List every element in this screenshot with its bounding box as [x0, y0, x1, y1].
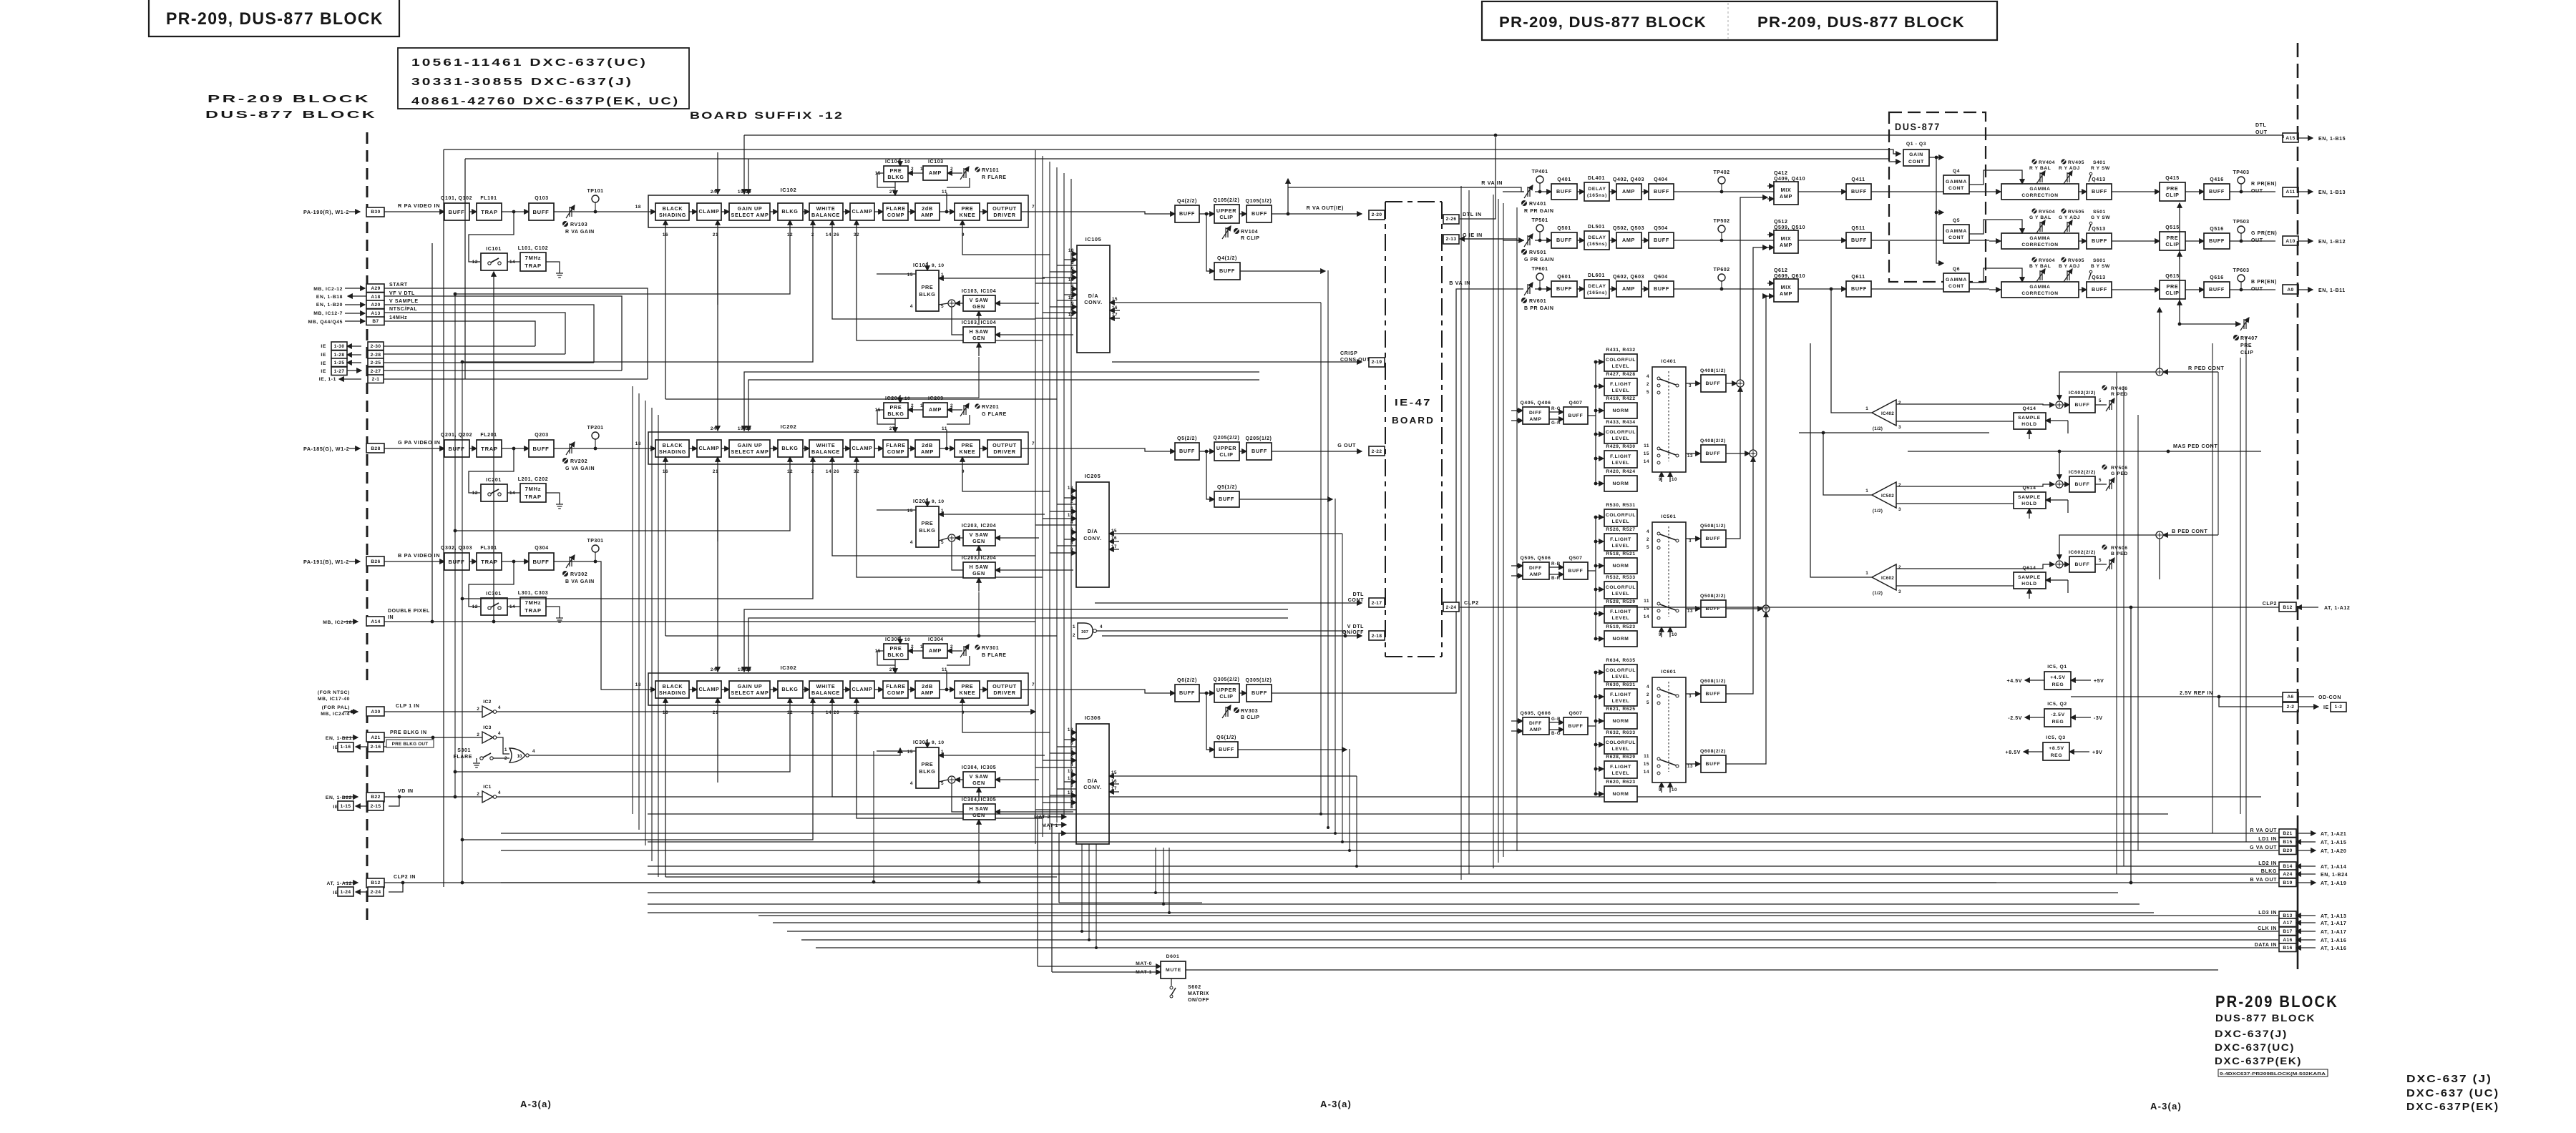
svg-text:+4.5V: +4.5V	[2050, 675, 2065, 680]
svg-text:1-15: 1-15	[341, 804, 351, 809]
svg-text:Q4: Q4	[1953, 169, 1960, 174]
svg-text:LEVEL: LEVEL	[1612, 388, 1630, 393]
svg-text:9: 9	[1071, 301, 1074, 306]
sum node IC602(2/2)	[2056, 561, 2063, 568]
wire	[384, 353, 565, 355]
D/A converter IC306	[1076, 724, 1109, 844]
svg-text:IE: IE	[321, 344, 326, 349]
wire gamma cont feed Q5	[1936, 212, 1943, 213]
wire IC402 in tap	[1831, 289, 1872, 413]
svg-text:CLP2: CLP2	[1464, 599, 1479, 606]
switch S401	[2089, 172, 2092, 182]
svg-text:AT, 1-A20: AT, 1-A20	[2321, 849, 2346, 854]
ground	[556, 273, 563, 278]
svg-text:Q408(2/2): Q408(2/2)	[1700, 438, 1726, 443]
svg-text:14: 14	[826, 710, 831, 715]
svg-text:BUFF: BUFF	[532, 209, 549, 215]
wire pin2 drop	[462, 698, 813, 840]
svg-text:Q601: Q601	[1557, 275, 1571, 280]
clamp in IC202	[697, 440, 721, 457]
regulator IC5,Q3 +8.5V	[2043, 742, 2069, 760]
op-amp IC502	[1865, 482, 1901, 514]
wire	[343, 711, 358, 712]
wire IC502 out 3	[1896, 503, 2041, 504]
svg-text:COMP: COMP	[887, 690, 904, 696]
svg-text:G PR GAIN: G PR GAIN	[1524, 257, 1554, 263]
wire Q5(1/2) out	[1239, 499, 1332, 500]
svg-text:4: 4	[1646, 529, 1649, 534]
wire trap feed IC201	[469, 448, 514, 493]
buffer Q6(1/2)	[1214, 742, 1238, 757]
wire pin8 bend	[1059, 902, 1202, 903]
wire level feed riser	[1595, 362, 1596, 484]
svg-text:MAS PED CONT: MAS PED CONT	[2173, 443, 2218, 449]
svg-text:LEVEL: LEVEL	[1612, 461, 1630, 466]
svg-text:PRE: PRE	[962, 205, 974, 212]
svg-text:DATA IN: DATA IN	[2255, 943, 2277, 948]
pot RV501	[1524, 234, 1533, 247]
level box R519, R523	[1604, 631, 1637, 647]
wire dac pin	[1043, 277, 1077, 278]
svg-text:BLKG: BLKG	[2261, 869, 2277, 874]
svg-text:BUFF: BUFF	[448, 209, 464, 215]
part number box	[2218, 1069, 2328, 1076]
svg-text:Q609, Q610: Q609, Q610	[1774, 274, 1805, 279]
vertical bus x=3092	[2212, 343, 2213, 833]
svg-text:PRE: PRE	[890, 167, 902, 174]
wire	[554, 561, 587, 562]
svg-text:COLORFUL: COLORFUL	[1606, 668, 1636, 673]
bus riser x=1615	[1155, 848, 1156, 893]
svg-text:IC301: IC301	[913, 740, 929, 745]
svg-text:B Y BAL: B Y BAL	[2029, 264, 2051, 269]
svg-text:4: 4	[498, 790, 501, 795]
svg-text:R526, R527: R526, R527	[1606, 527, 1635, 532]
svg-text:EN, 1-B22: EN, 1-B22	[326, 795, 352, 800]
svg-text:(FOR PAL): (FOR PAL)	[322, 705, 350, 710]
svg-text:AMP: AMP	[929, 406, 942, 413]
bus wire y=1138	[648, 813, 2168, 815]
svg-text:OUT: OUT	[2251, 189, 2263, 194]
svg-text:CLAMP: CLAMP	[852, 445, 872, 451]
pre knee in IC202	[955, 440, 980, 457]
svg-text:-3V: -3V	[2094, 716, 2103, 721]
connector 1-24	[338, 887, 353, 896]
svg-text:IC2: IC2	[483, 700, 491, 705]
svg-text:BUFF: BUFF	[1851, 188, 1867, 195]
upper clip Q205(2/2)	[1214, 442, 1239, 461]
wire	[345, 313, 365, 314]
svg-text:BLKG: BLKG	[781, 445, 798, 451]
svg-text:DTL: DTL	[1353, 592, 1365, 597]
connector B28	[366, 443, 384, 453]
svg-text:Q605, Q606: Q605, Q606	[1520, 711, 1551, 716]
svg-text:BUFF: BUFF	[1568, 413, 1584, 418]
svg-text:Q411: Q411	[1851, 177, 1865, 182]
svg-text:TP501: TP501	[1531, 218, 1548, 223]
wire	[384, 362, 594, 363]
svg-text:TRAP: TRAP	[481, 559, 497, 565]
svg-text:4: 4	[532, 749, 535, 754]
svg-text:B14: B14	[2283, 864, 2292, 869]
svg-text:A11: A11	[2286, 190, 2296, 195]
wire IC402 out 3	[1896, 421, 2041, 422]
wire	[349, 211, 360, 212]
svg-text:2-30: 2-30	[371, 344, 381, 349]
svg-text:R CLIP: R CLIP	[1241, 236, 1260, 241]
svg-text:MB, Q44/Q45: MB, Q44/Q45	[308, 320, 343, 325]
pre blkg IC301	[916, 747, 939, 788]
svg-text:GEN: GEN	[972, 780, 985, 786]
svg-text:OUT: OUT	[2251, 287, 2263, 292]
svg-text:CLIP: CLIP	[1219, 214, 1233, 220]
wire dac pin	[1064, 781, 1076, 783]
svg-text:G FLARE: G FLARE	[982, 412, 1007, 417]
svg-text:7: 7	[1071, 255, 1074, 260]
wire crisp cont out	[1112, 361, 1362, 363]
connector A16	[2279, 936, 2296, 944]
svg-text:4: 4	[1071, 284, 1074, 289]
buffer Q604	[1649, 281, 1674, 297]
svg-text:LD1 IN: LD1 IN	[2258, 837, 2277, 842]
wire	[384, 561, 444, 562]
svg-text:MAT 1: MAT 1	[1042, 823, 1058, 828]
svg-text:2-19: 2-19	[1372, 360, 1382, 365]
svg-text:R419, R422: R419, R422	[1606, 396, 1635, 401]
svg-text:CLAMP: CLAMP	[698, 208, 719, 215]
svg-text:TP403: TP403	[2233, 170, 2249, 175]
clamp 2 in IC202	[850, 440, 874, 457]
svg-text:G PED: G PED	[2111, 471, 2128, 476]
svg-text:Q512: Q512	[1774, 220, 1788, 225]
svg-text:8: 8	[1071, 307, 1074, 312]
wire riser 1856	[1327, 270, 1329, 828]
svg-text:H SAW: H SAW	[969, 328, 988, 335]
wire	[345, 288, 365, 289]
svg-text:2: 2	[1646, 692, 1649, 697]
switch IC101	[481, 253, 507, 270]
connector B7	[366, 317, 384, 325]
wire r ped cont	[2163, 371, 2218, 373]
vertical bus x=3100	[2218, 372, 2219, 535]
svg-text:BUFF: BUFF	[1252, 448, 1267, 454]
svg-text:R PED: R PED	[2111, 392, 2128, 397]
svg-text:BUFF: BUFF	[532, 559, 549, 565]
svg-text:DELAY: DELAY	[1588, 187, 1606, 192]
D/A converter IC205	[1076, 482, 1109, 587]
bus riser x=911	[651, 408, 653, 861]
wire	[345, 304, 365, 305]
svg-text:IN: IN	[388, 615, 394, 620]
upper clip Q105(2/2)	[1214, 205, 1239, 223]
connector 2-15	[368, 801, 384, 810]
svg-text:OUTPUT: OUTPUT	[992, 683, 1017, 690]
svg-text:R FLARE: R FLARE	[982, 175, 1007, 180]
wire dac pin	[1050, 795, 1076, 796]
wire pin2 drop	[462, 220, 813, 362]
svg-text:A13: A13	[371, 311, 380, 316]
svg-text:BLKG: BLKG	[781, 686, 798, 692]
svg-text:1: 1	[1073, 624, 1075, 629]
svg-text:9, 10: 9, 10	[932, 499, 945, 504]
buffer Q103	[529, 203, 554, 220]
wire top bus 2	[444, 149, 1901, 154]
wire 2dB out to pin 11	[946, 430, 947, 448]
vertical bus x=2053	[1468, 190, 1470, 874]
pre knee in IC102	[955, 203, 980, 220]
wire 2-2 branch	[2219, 697, 2283, 707]
vertical bus x=1467	[1049, 162, 1050, 830]
pre clip Q415	[2160, 182, 2185, 201]
sum node IC502(2/2)	[2056, 481, 2063, 488]
wire buff to gamma correction	[1871, 191, 1989, 192]
bus wire y=1234	[501, 882, 2278, 883]
svg-text:Q1 - Q3: Q1 - Q3	[1906, 142, 1926, 147]
svg-text:19: 19	[738, 667, 743, 672]
connector 2-13	[1443, 235, 1459, 244]
right solid rail bottom	[2297, 815, 2299, 969]
wire pre blkg loop	[877, 651, 895, 665]
svg-text:COLORFUL: COLORFUL	[1606, 358, 1636, 363]
svg-text:G VA OUT: G VA OUT	[2250, 845, 2277, 850]
wire pin9 drop	[962, 220, 1050, 255]
buffer Q5(1/2)	[1214, 491, 1239, 507]
svg-text:IC304, IC305: IC304, IC305	[962, 765, 996, 770]
connector 2-27	[368, 367, 384, 376]
svg-text:R Y ADJ: R Y ADJ	[2059, 166, 2080, 171]
svg-text:IC602: IC602	[1881, 576, 1894, 581]
svg-text:CLAMP: CLAMP	[698, 686, 719, 692]
svg-text:WHITE: WHITE	[816, 683, 836, 690]
black shading in IC202	[655, 440, 689, 457]
svg-text:B VA GAIN: B VA GAIN	[565, 579, 595, 584]
black shading in IC102	[655, 203, 689, 220]
wire riser 1003 R	[717, 152, 718, 194]
amp IC203	[923, 403, 947, 417]
svg-text:17: 17	[1111, 786, 1117, 791]
wire h saw clock R	[887, 357, 979, 398]
connector 2-19	[1369, 358, 1385, 367]
svg-text:TP402: TP402	[1713, 170, 1729, 175]
wire	[469, 448, 477, 449]
DUS-877 dashed box	[1889, 112, 1986, 282]
switch IC401	[1652, 367, 1686, 472]
wire pin14 drop	[832, 698, 1035, 797]
svg-text:27: 27	[889, 667, 895, 672]
connector B21	[2279, 829, 2296, 838]
svg-text:AMP: AMP	[1780, 193, 1792, 200]
svg-text:10: 10	[904, 160, 910, 165]
summing node	[2156, 531, 2163, 539]
svg-text:A6: A6	[2287, 695, 2293, 700]
svg-text:R PR GAIN: R PR GAIN	[1524, 209, 1554, 214]
svg-text:2-24: 2-24	[371, 890, 381, 895]
svg-text:2: 2	[911, 644, 914, 649]
connector 1-30	[331, 342, 347, 350]
svg-text:WHITE: WHITE	[816, 442, 836, 448]
svg-text:PRE: PRE	[962, 442, 974, 448]
svg-text:Q612: Q612	[1774, 268, 1788, 273]
gain up select amp in IC302	[729, 681, 770, 698]
svg-text:EN, 1-B21: EN, 1-B21	[326, 736, 352, 741]
svg-text:3: 3	[1689, 383, 1692, 388]
svg-text:PA-191(B), W1-2: PA-191(B), W1-2	[303, 559, 349, 565]
buffer IC2	[477, 700, 501, 717]
svg-text:Q615: Q615	[2165, 274, 2180, 279]
title box top-right PR-209, DUS-877 BLOCK (double)	[1482, 1, 1997, 40]
pot RV201	[975, 403, 980, 408]
connector B12	[366, 878, 384, 888]
svg-text:16: 16	[1111, 536, 1117, 541]
wire dac pin	[1057, 545, 1076, 546]
svg-text:Q511: Q511	[1851, 226, 1865, 231]
svg-text:12: 12	[472, 260, 478, 265]
svg-text:CLIP: CLIP	[2165, 241, 2179, 247]
wire buff to gamma correction	[1871, 240, 1989, 241]
svg-text:Q101, Q102: Q101, Q102	[441, 196, 472, 201]
svg-text:IC1: IC1	[483, 785, 491, 790]
connector A11	[2283, 187, 2298, 197]
svg-text:5: 5	[2099, 478, 2102, 483]
ground	[556, 504, 563, 509]
svg-text:L301, C303: L301, C303	[518, 591, 549, 596]
svg-text:LEVEL: LEVEL	[1612, 771, 1630, 776]
svg-text:TP201: TP201	[587, 426, 603, 431]
svg-text:BUFF: BUFF	[2209, 286, 2225, 293]
pot RV606	[2102, 544, 2107, 549]
wire riser 1866	[1335, 499, 1336, 833]
buffer Q613	[2087, 282, 2112, 298]
svg-text:B28: B28	[371, 446, 380, 451]
svg-text:A24: A24	[2283, 872, 2292, 877]
wire to Q5(1/2)	[1206, 451, 1214, 499]
svg-text:RV104: RV104	[1241, 230, 1258, 235]
svg-text:CLAMP: CLAMP	[852, 208, 872, 215]
svg-text:Q5: Q5	[1953, 218, 1960, 223]
svg-text:Q305(1/2): Q305(1/2)	[1246, 678, 1272, 683]
svg-text:G-R: G-R	[1551, 421, 1561, 426]
flare comp in IC102	[883, 203, 908, 220]
wire CLP1 to IC10x	[497, 711, 1035, 712]
gamma correction row Q4	[2001, 184, 2079, 200]
buffer Q302, Q303	[444, 553, 469, 570]
buffer Q304	[529, 553, 554, 570]
wire	[339, 378, 361, 380]
svg-text:CORRECTION: CORRECTION	[2021, 193, 2058, 198]
svg-text:AMP: AMP	[1622, 188, 1635, 195]
right dashed rail mid2	[2297, 336, 2299, 810]
wire	[343, 621, 358, 622]
svg-text:B15: B15	[2283, 840, 2292, 845]
svg-text:5: 5	[1646, 390, 1649, 395]
clamp 2 in IC302	[850, 681, 874, 698]
svg-text:R-B: R-B	[1551, 561, 1561, 566]
svg-text:(FOR NTSC): (FOR NTSC)	[318, 690, 350, 695]
svg-text:10561-11461 DXC-637(UC): 10561-11461 DXC-637(UC)	[411, 57, 648, 69]
svg-text:LEVEL: LEVEL	[1612, 699, 1630, 704]
svg-text:1: 1	[920, 167, 923, 172]
vertical bus x=1457	[1042, 156, 1043, 837]
wire B VA long up to delay row	[1272, 289, 1474, 693]
svg-text:14: 14	[826, 469, 831, 474]
level box R518, R521	[1604, 558, 1637, 574]
pot RV504	[2031, 208, 2036, 213]
svg-text:TP602: TP602	[1713, 268, 1729, 273]
svg-text:B21: B21	[2283, 831, 2292, 836]
output driver in IC102	[987, 203, 1021, 220]
wire riser 1886	[1349, 749, 1350, 850]
svg-text:15: 15	[1111, 770, 1117, 775]
pre blkg IC201	[916, 506, 939, 547]
wire y605 horizontal	[1799, 432, 1989, 433]
svg-text:COMP: COMP	[887, 212, 904, 218]
svg-text:GAIN UP: GAIN UP	[738, 442, 763, 448]
svg-text:AT, 1-A15: AT, 1-A15	[2321, 840, 2346, 845]
svg-text:IE: IE	[321, 369, 326, 374]
svg-text:24: 24	[711, 426, 716, 431]
connector B19	[2279, 878, 2296, 887]
svg-text:2: 2	[1898, 565, 1901, 570]
svg-text:OUTPUT: OUTPUT	[992, 205, 1017, 212]
wire dtl in	[1460, 137, 1496, 219]
svg-text:BUFF: BUFF	[1654, 237, 1669, 243]
buffer Q201, Q202	[444, 440, 469, 457]
svg-text:18: 18	[635, 682, 641, 687]
svg-text:DXC-637(J): DXC-637(J)	[2215, 1028, 2288, 1039]
wire r ped up	[2159, 308, 2160, 368]
buffer Q404	[1649, 184, 1674, 200]
svg-text:MIX: MIX	[1781, 187, 1792, 193]
svg-text:SHADING: SHADING	[659, 448, 686, 455]
wire pin9 drop	[962, 698, 1050, 732]
svg-text:BUFF: BUFF	[1706, 451, 1721, 456]
flare comp in IC202	[883, 440, 908, 457]
svg-text:FL301: FL301	[480, 546, 497, 551]
svg-text:2-22: 2-22	[1372, 449, 1382, 454]
level box R628, R629	[1604, 761, 1637, 778]
svg-text:Q415: Q415	[2165, 176, 2180, 181]
wire pin9 drop	[962, 457, 1050, 491]
wire	[595, 202, 596, 212]
2dB amp in IC302	[915, 681, 940, 698]
wire dac pin	[1071, 531, 1076, 533]
pot RV506	[2102, 464, 2107, 469]
sum node Q408-2	[1750, 450, 1757, 457]
svg-text:5: 5	[1071, 260, 1074, 265]
bus riser x=884	[632, 386, 633, 814]
svg-text:Q416: Q416	[2210, 177, 2224, 182]
svg-text:IC105: IC105	[1085, 236, 1102, 242]
wire	[595, 439, 596, 448]
wire b ped to sum	[2059, 535, 2156, 559]
svg-text:KNEE: KNEE	[960, 690, 976, 696]
amp IC103	[923, 166, 947, 180]
svg-text:IC101: IC101	[486, 247, 502, 252]
connector 1-2	[2331, 702, 2346, 712]
delay line DL601	[1584, 280, 1609, 298]
svg-text:R429, R430: R429, R430	[1606, 444, 1635, 449]
wire G IE IN to delay row	[1460, 239, 1524, 240]
svg-text:G PA VIDEO IN: G PA VIDEO IN	[398, 439, 441, 446]
wire	[343, 737, 358, 738]
svg-text:A14: A14	[371, 619, 380, 624]
svg-text:V SAW: V SAW	[970, 297, 989, 303]
wire dac 15 return R	[1120, 302, 1321, 303]
wire riser 1003 B	[717, 472, 718, 672]
svg-text:RV406: RV406	[2111, 386, 2128, 391]
vertical bus x=2094	[1498, 199, 1499, 863]
wire	[384, 711, 482, 712]
